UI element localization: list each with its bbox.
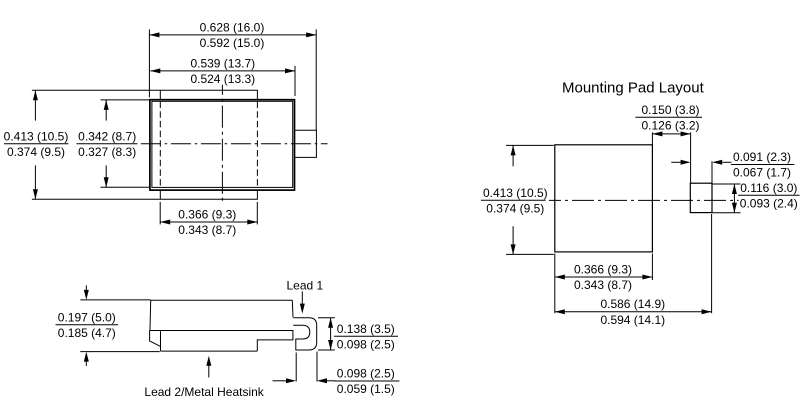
dim 0.138 arrow up — [328, 318, 333, 328]
pad dim 0.116 fraction bar — [738, 194, 799, 196]
big pad rectangle — [555, 145, 653, 252]
pad dim 0.413 fraction bar — [481, 199, 546, 201]
dim 0.342 extension line top — [101, 99, 150, 101]
dim 0.342 fraction bar — [77, 143, 138, 145]
svg-text:0.126 (3.2): 0.126 (3.2) — [641, 119, 699, 133]
svg-text:0.138 (3.5): 0.138 (3.5) — [337, 322, 395, 336]
dim 0.197 extension line top (side view) — [80, 299, 150, 301]
dim 0.413 fraction bar (top view) — [4, 143, 69, 145]
pad dim 0.091 left tail and arrow — [671, 161, 681, 163]
dim 0.138 tick bottom (side view) — [318, 349, 335, 351]
pad dim 0.091 fraction bar — [731, 164, 794, 166]
heatsink tab hidden edge right (dashed) — [256, 102, 258, 188]
svg-text:0.366 (9.3): 0.366 (9.3) — [178, 208, 236, 222]
svg-text:0.197 (5.0): 0.197 (5.0) — [58, 310, 116, 324]
dim 0.342 arrow up — [104, 100, 109, 110]
svg-text:0.116 (3.0): 0.116 (3.0) — [740, 181, 797, 195]
center line vertical (top view) — [221, 85, 223, 204]
dim 0.138 fraction bar — [334, 335, 398, 337]
svg-text:0.586 (14.9): 0.586 (14.9) — [600, 297, 665, 311]
center line horizontal (top view) — [141, 143, 328, 145]
dim 0.197 arrow bottom — [85, 361, 87, 366]
pad dim 0.116 arrow up — [732, 184, 737, 194]
dim 0.628 arrow right — [306, 32, 316, 37]
pad dim 0.116 tick top — [713, 183, 741, 185]
pad dim 0.150 fraction bar — [635, 116, 702, 118]
dim 0.366 arrow right (top view) — [247, 220, 257, 225]
svg-text:0.343 (8.7): 0.343 (8.7) — [178, 223, 236, 237]
pad dim 0.366 extension right — [651, 254, 653, 281]
dim 0.628 extension line left — [148, 29, 150, 97]
side view body left edge — [149, 300, 152, 330]
body outline outer (top view) — [150, 100, 295, 190]
pad dim 0.150 extension right — [690, 132, 692, 183]
pad dim 0.586 arrow left — [555, 309, 565, 314]
dim 0.539 arrow left — [150, 68, 160, 73]
pad dim 0.116 dimension line — [733, 184, 735, 213]
pad dim 0.150 dimension line — [652, 133, 690, 135]
pad dim 0.116 arrow down — [732, 203, 737, 213]
dim 0.628 arrow left — [149, 32, 159, 37]
dim 0.366 dimension line with fraction bar (top view) — [160, 221, 257, 223]
pad dim 0.413 extension top — [506, 144, 554, 146]
body outline inner lip (top view) — [152, 101, 293, 187]
svg-text:0.342 (8.7): 0.342 (8.7) — [78, 129, 136, 143]
dim 0.197 arrow top — [85, 285, 87, 291]
dim 0.098 foot fraction bar — [334, 380, 399, 382]
svg-text:Lead 2/Metal Heatsink: Lead 2/Metal Heatsink — [144, 385, 264, 399]
pad dim 0.366 extension left — [554, 254, 556, 314]
dim 0.413 dimension line segments (top view) — [34, 90, 36, 199]
dim 0.197 fraction bar — [56, 324, 119, 326]
dim 0.138 dimension line — [330, 318, 332, 350]
pad dim 0.150 arrow left — [652, 131, 662, 136]
dim 0.366 extension line right (top view) — [256, 202, 258, 225]
heatsink tab hidden edge left (dashed) — [159, 102, 161, 188]
lead 1 stub (top view right) — [295, 130, 317, 157]
lead 1 bent lead profile (side view) — [293, 318, 317, 350]
lead 1 label arrow — [301, 291, 303, 305]
svg-text:0.093 (2.4): 0.093 (2.4) — [740, 197, 798, 211]
side view left lower edge and chamfer — [150, 331, 161, 347]
svg-text:0.592 (15.0): 0.592 (15.0) — [200, 36, 265, 50]
svg-text:0.059 (1.5): 0.059 (1.5) — [337, 382, 395, 396]
pad dim 0.091 right arrow and tail — [712, 160, 722, 165]
pad dim 0.150 arrow right — [681, 131, 691, 136]
svg-text:0.067 (1.7): 0.067 (1.7) — [733, 166, 791, 180]
dim 0.138 arrow down — [328, 340, 333, 350]
dim 0.413 arrow down — [33, 189, 38, 199]
side view heatsink left edge — [160, 331, 162, 352]
pad dim 0.413 dimension segments — [512, 145, 514, 254]
side view heatsink bottom — [161, 350, 258, 352]
svg-text:0.413 (10.5): 0.413 (10.5) — [4, 129, 69, 143]
dim 0.342 extension line bottom — [101, 186, 150, 188]
pad dim 0.150 extension left — [651, 132, 653, 144]
svg-text:0.374 (9.5): 0.374 (9.5) — [486, 202, 544, 216]
svg-text:0.150 (3.8): 0.150 (3.8) — [641, 103, 699, 117]
dim 0.413 arrow up — [33, 90, 38, 100]
small pad rectangle — [690, 183, 712, 212]
dim 0.413 extension line top (top view) — [32, 89, 160, 91]
pad dim 0.586 extension right — [711, 214, 713, 313]
svg-text:Mounting Pad Layout: Mounting Pad Layout — [562, 79, 705, 96]
dim 0.098 foot dimension tails and arrows — [273, 380, 287, 382]
svg-text:0.366 (9.3): 0.366 (9.3) — [574, 263, 632, 277]
svg-text:0.091 (2.3): 0.091 (2.3) — [733, 150, 791, 164]
svg-text:0.524 (13.3): 0.524 (13.3) — [190, 72, 255, 86]
pad dim 0.413 extension bottom — [506, 253, 554, 255]
pad dim 0.413 arrow down — [511, 244, 516, 254]
pad dim 0.586 dimension line with bar — [555, 311, 712, 313]
dim 0.539 dimension line — [150, 70, 295, 72]
dim 0.366 arrow left (top view) — [160, 220, 170, 225]
dim 0.342 arrow down — [104, 177, 109, 187]
svg-text:0.185 (4.7): 0.185 (4.7) — [58, 326, 116, 340]
dim 0.138 tick top (side view) — [318, 317, 335, 319]
svg-text:0.594 (14.1): 0.594 (14.1) — [600, 313, 665, 327]
dim 0.539 arrow right — [285, 68, 295, 73]
svg-text:Lead 1: Lead 1 — [287, 278, 324, 292]
side view body top edge — [151, 299, 293, 301]
pad dim 0.091 extension right — [711, 161, 713, 183]
lead 2 label arrow — [208, 364, 210, 377]
pad dim 0.586 arrow right — [702, 309, 712, 314]
pad dim 0.413 arrow up — [511, 145, 516, 155]
dim 0.539 extension line right — [294, 66, 296, 96]
dim 0.342 dimension line segments — [105, 100, 107, 187]
svg-text:0.413 (10.5): 0.413 (10.5) — [483, 186, 548, 200]
side view body right edge — [291, 300, 294, 317]
heatsink tab bottom stickout (top view) — [160, 190, 257, 199]
svg-text:0.374 (9.5): 0.374 (9.5) — [7, 145, 65, 159]
dim 0.098 foot extension line right (side view) — [316, 352, 318, 382]
svg-text:0.539 (13.7): 0.539 (13.7) — [190, 56, 255, 70]
pad dim 0.366 arrow right — [642, 275, 652, 280]
pad dim 0.366 arrow left — [555, 275, 565, 280]
side view body bottom lip — [150, 330, 294, 332]
dim 0.197 extension line bottom (side view) — [80, 351, 160, 353]
dim 0.366 extension line left (top view) — [159, 202, 161, 225]
svg-text:0.628 (16.0): 0.628 (16.0) — [200, 20, 265, 34]
side view heatsink step right — [257, 331, 293, 352]
dim 0.628 extension line right — [315, 29, 317, 130]
dim 0.098 foot extension line left (side view) — [295, 353, 297, 382]
center line horizontal (pad layout) — [549, 199, 739, 201]
heatsink tab top stickout (top view) — [160, 90, 257, 99]
svg-text:0.098 (2.5): 0.098 (2.5) — [337, 367, 395, 381]
dim 0.628 dimension line — [149, 34, 316, 36]
pad dim 0.116 tick bottom — [713, 212, 741, 214]
svg-text:0.098 (2.5): 0.098 (2.5) — [337, 338, 395, 352]
svg-text:0.327 (8.3): 0.327 (8.3) — [78, 145, 136, 159]
dim 0.413 extension line bottom (top view) — [32, 198, 160, 200]
pad dim 0.366 dimension line with bar — [555, 276, 653, 278]
svg-text:0.343 (8.7): 0.343 (8.7) — [574, 278, 632, 292]
